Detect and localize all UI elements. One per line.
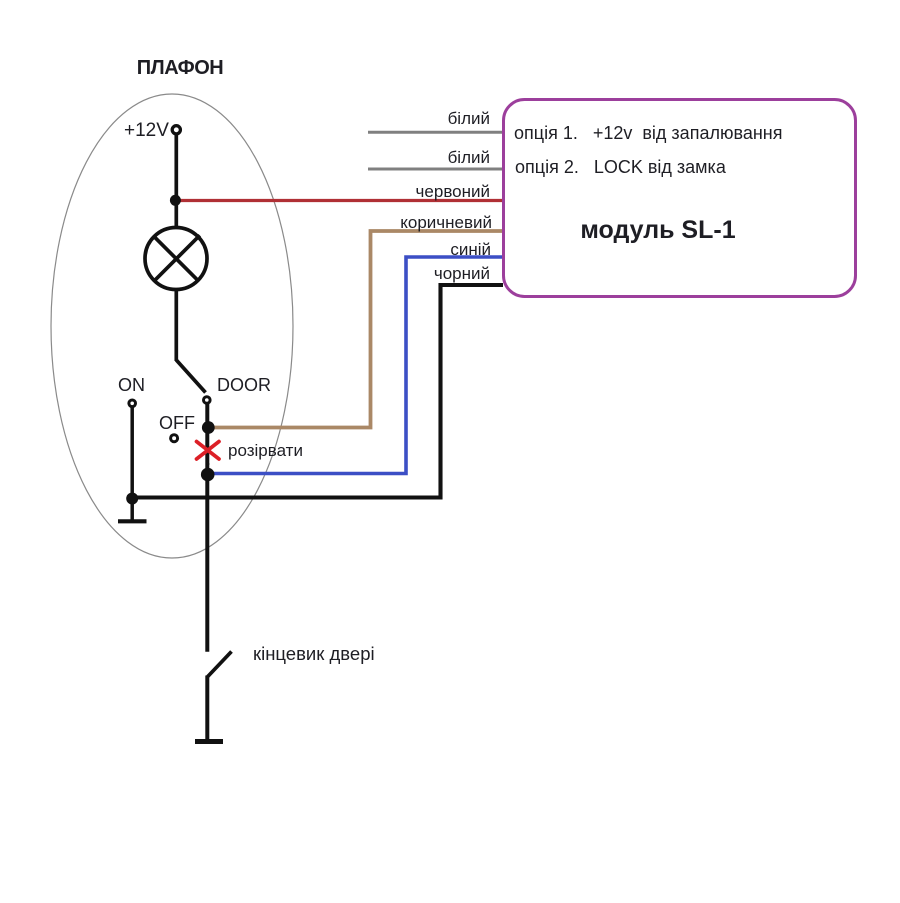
- terminal OFF: [171, 435, 178, 442]
- switch lever (plafond 3-position switch): [176, 360, 205, 393]
- svg-text:модуль SL-1: модуль SL-1: [580, 216, 735, 244]
- svg-text:опція 1. +12v від запалюван: опція 1. +12v від запалювання: [514, 123, 782, 143]
- svg-text:+12V: +12V: [124, 120, 169, 141]
- svg-text:OFF: OFF: [159, 413, 195, 433]
- svg-text:білий: білий: [448, 109, 490, 128]
- wire +12V to red junction: [174, 135, 178, 201]
- svg-text:ПЛАФОН: ПЛАФОН: [137, 57, 223, 79]
- node junction brown wire: [202, 421, 215, 434]
- svg-text:коричневий: коричневий: [400, 213, 492, 232]
- wire brown (коричневий) from module to DOOR node: [212, 231, 503, 428]
- wire DOOR contact down to door limit switch: [205, 404, 209, 652]
- wire door switch to ground: [205, 676, 209, 741]
- svg-text:білий: білий: [448, 148, 490, 167]
- ground (plafond side): [118, 519, 147, 523]
- svg-text:кінцевик двері: кінцевик двері: [253, 643, 375, 664]
- svg-text:DOOR: DOOR: [217, 375, 271, 395]
- wire lamp to switch common: [174, 289, 178, 361]
- svg-text:опція 2. LOCK від замка: опція 2. LOCK від замка: [515, 157, 727, 177]
- node junction blue wire: [201, 468, 215, 482]
- wire black (чорний) from module to ON junction: [133, 285, 503, 498]
- wire white option1 (білий): [368, 131, 503, 134]
- wire ON to ground: [130, 407, 134, 520]
- node junction ON / black wire: [126, 493, 138, 505]
- svg-text:чорний: чорний: [434, 264, 490, 283]
- ground (door switch side): [195, 739, 223, 744]
- lamp (plafond bulb): [145, 228, 207, 290]
- break mark X розірвати: [197, 442, 220, 460]
- svg-text:синій: синій: [450, 240, 491, 259]
- wire white option2 (білий): [368, 168, 503, 171]
- wire blue (синій) from module to node: [212, 257, 503, 474]
- wire junction to lamp: [174, 200, 178, 229]
- door limit switch lever: [207, 652, 231, 678]
- wire red (червоний) to module: [179, 199, 503, 202]
- enclosure ellipse (dome light outline): [51, 94, 293, 558]
- node small dot on wire: [207, 463, 210, 466]
- svg-text:розірвати: розірвати: [228, 441, 303, 460]
- terminal +12V: [172, 126, 180, 134]
- svg-text:ON: ON: [118, 375, 145, 395]
- node junction red tap: [170, 195, 181, 206]
- module SL-1 box: [504, 100, 856, 297]
- terminal ON: [129, 400, 136, 407]
- svg-text:червоний: червоний: [416, 182, 490, 201]
- terminal DOOR: [204, 397, 211, 404]
